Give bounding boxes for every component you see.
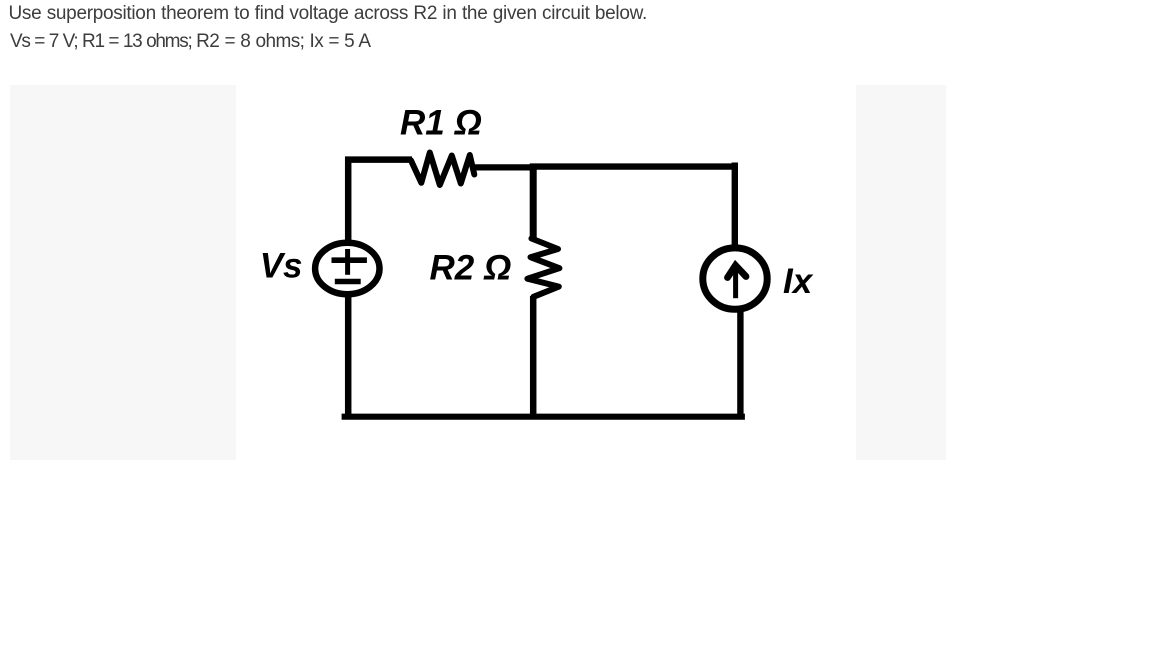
svg-text:R2 Ω: R2 Ω [430, 249, 512, 288]
wire: top right segment from node A to top-right corner [530, 163, 735, 249]
wire: middle vertical branch upper part [530, 164, 537, 241]
wire: left branch (top-left corner down to bottom-left) [348, 160, 412, 417]
svg-text:Ix: Ix [783, 262, 814, 301]
svg-text:R1 Ω: R1 Ω [400, 104, 482, 143]
label Ix [783, 262, 814, 301]
wire: bottom rail [342, 414, 745, 420]
resistor R2 [527, 239, 559, 297]
wire: right branch lower part [737, 308, 743, 417]
resistor R1 [411, 153, 474, 186]
wire: top middle segment from R1 to node A [471, 164, 536, 170]
label Vs [260, 247, 303, 286]
wire: middle vertical branch lower part [530, 296, 537, 417]
current source Ix [703, 248, 767, 309]
label R2 value [430, 249, 512, 288]
voltage source Vs [315, 243, 379, 294]
label R1 value [400, 104, 482, 143]
svg-text:Vs: Vs [260, 247, 303, 286]
